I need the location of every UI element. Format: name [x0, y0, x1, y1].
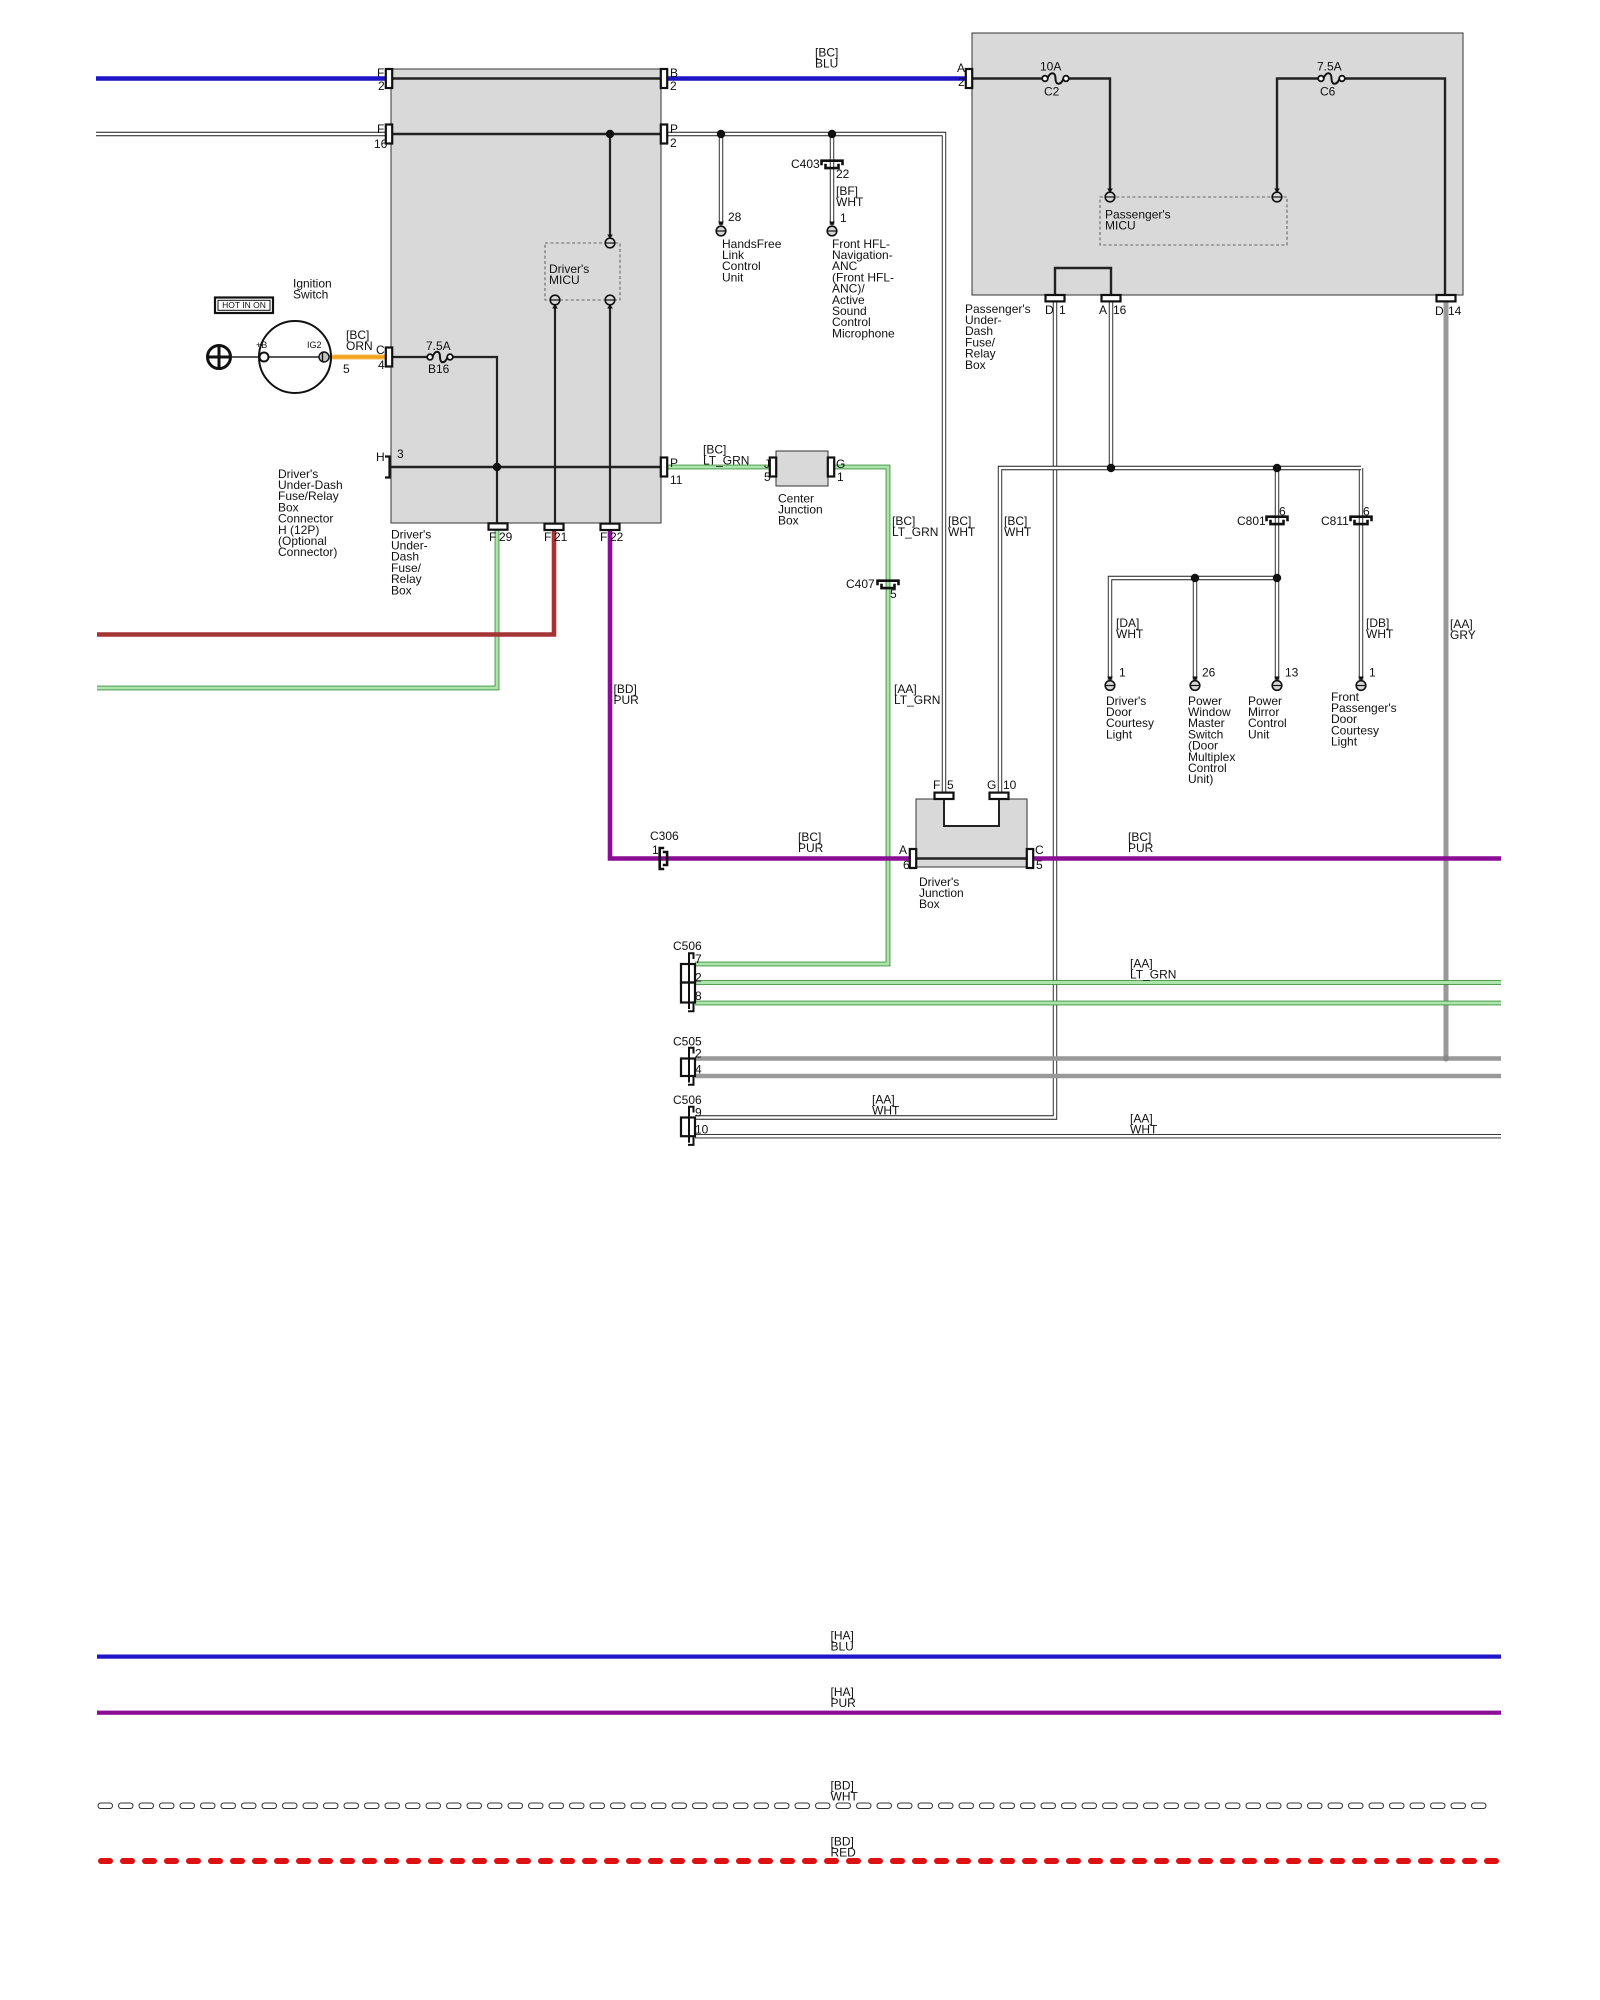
wire [HA] BLU bus	[97, 1655, 1501, 1659]
svg-text:7.5A: 7.5A	[1317, 59, 1342, 73]
terminal 28 HandsFree	[718, 222, 724, 227]
fuse C6 7.5A	[1318, 76, 1324, 82]
svg-text:Light: Light	[1331, 735, 1358, 749]
svg-text:WHT: WHT	[948, 525, 976, 539]
svg-text:WHT: WHT	[836, 195, 864, 209]
svg-text:D: D	[1045, 303, 1054, 317]
wire loop D1 to A16 inside passenger box	[1055, 268, 1111, 295]
svg-text:5: 5	[890, 587, 897, 601]
Driver's Junction Box (gray box with notch)	[916, 799, 1027, 867]
svg-text:LT_GRN: LT_GRN	[892, 525, 938, 539]
wire [BC] WHT A16 down to junction	[1109, 302, 1113, 468]
svg-text:26: 26	[1202, 665, 1216, 679]
svg-text:WHT: WHT	[1130, 1123, 1158, 1137]
wire dark red from F21 down and left	[97, 530, 554, 635]
svg-text:G: G	[987, 778, 996, 792]
wire F16 to P2 inside driver's box	[391, 133, 661, 135]
svg-text:C: C	[1035, 843, 1044, 857]
terminal Driver MICU top	[607, 235, 613, 240]
HOT IN ON box	[215, 298, 273, 314]
terminal Passenger MICU left	[1107, 189, 1113, 194]
connector C505 (pins 2,4)	[688, 1048, 694, 1054]
svg-text:8: 8	[695, 989, 702, 1003]
connector pin H3 (optional connector bracket)	[385, 457, 390, 478]
svg-text:5: 5	[764, 470, 771, 484]
connector pin D1	[1046, 295, 1065, 301]
svg-text:2: 2	[695, 970, 702, 984]
wire P2 junction down to Driver's MICU	[609, 134, 611, 243]
svg-text:B16: B16	[428, 362, 450, 376]
connector pin C4	[386, 348, 392, 367]
svg-text:28: 28	[728, 210, 742, 224]
svg-text:Microphone: Microphone	[832, 326, 895, 340]
svg-text:C801: C801	[1237, 514, 1266, 528]
connector pin A6	[910, 849, 916, 868]
svg-text:C407: C407	[846, 577, 875, 591]
wire fuse C6 to D14	[1342, 79, 1445, 296]
connector pin F21	[545, 524, 564, 530]
svg-text:29: 29	[499, 530, 513, 544]
wire F2 to B2 inside driver's box	[391, 77, 661, 79]
svg-text:H: H	[376, 450, 385, 464]
connector pin J5	[770, 458, 776, 477]
svg-text:5: 5	[947, 778, 954, 792]
svg-text:1: 1	[1119, 665, 1126, 679]
Driver's MICU (dashed box)	[545, 243, 620, 300]
svg-text:1: 1	[837, 470, 844, 484]
connector pin A16	[1102, 295, 1121, 301]
svg-text:13: 13	[1285, 665, 1299, 679]
svg-text:Box: Box	[778, 514, 799, 528]
wire fuse C2 to Passenger's MICU	[1066, 79, 1110, 193]
svg-text:2: 2	[958, 75, 965, 89]
connector pin P2	[661, 125, 667, 144]
Passenger's Under-Dash Fuse/Relay Box (gray box)	[972, 33, 1463, 295]
terminal 1 Front HFL-ANC	[829, 222, 835, 227]
svg-text:10: 10	[1003, 778, 1017, 792]
svg-text:16: 16	[374, 137, 388, 151]
svg-text:C306: C306	[650, 829, 679, 843]
terminal Driver MICU bottom-right	[607, 304, 613, 309]
wire [HA] PUR bus	[97, 1711, 1501, 1715]
svg-text:BLU: BLU	[815, 57, 838, 71]
svg-text:Light: Light	[1106, 727, 1133, 741]
svg-text:7: 7	[695, 952, 702, 966]
wire white left feed to F16	[96, 132, 391, 136]
svg-text:2: 2	[378, 79, 385, 93]
battery symbol	[208, 346, 231, 369]
svg-text:A: A	[957, 61, 965, 75]
svg-text:Box: Box	[919, 897, 940, 911]
wire white drop to Power Window Master Switch pin 26	[1193, 578, 1197, 680]
connector pin D14	[1437, 295, 1456, 301]
connector pin F2	[386, 69, 392, 88]
wire [AA] GRY C505 pin 4 row	[695, 1074, 1501, 1079]
svg-text:1: 1	[1059, 303, 1066, 317]
wire C4 to fuse B16	[392, 356, 429, 358]
svg-text:RED: RED	[831, 1846, 857, 1860]
wire [BC] ORN ignition switch to C4	[329, 354, 387, 359]
svg-text:C811: C811	[1321, 514, 1349, 528]
svg-text:Box: Box	[965, 358, 986, 372]
wire [BD] PUR from F22 down through C306 to A6	[610, 530, 916, 859]
wire Passenger's MICU to fuse C6	[1277, 79, 1321, 193]
wire green from F29 down and left	[97, 530, 497, 688]
svg-text:P: P	[670, 456, 678, 470]
svg-text:WHT: WHT	[1004, 525, 1032, 539]
svg-text:IG2: IG2	[307, 340, 322, 350]
wire [AA] LT_GRN C506 pin 8 row	[695, 1001, 1501, 1006]
fuse C2 10A	[1042, 76, 1048, 82]
svg-text:Unit: Unit	[1248, 727, 1270, 741]
ignition switch contact +B to IG2	[268, 356, 319, 358]
svg-text:F: F	[933, 778, 940, 792]
connector pin G1	[828, 458, 834, 477]
svg-text:Unit: Unit	[722, 270, 744, 284]
svg-text:6: 6	[903, 858, 910, 872]
svg-text:6: 6	[1363, 504, 1370, 518]
svg-text:21: 21	[554, 530, 568, 544]
wire [BC] WHT from P2 junction down to F5 of driver's junction box	[665, 134, 944, 792]
svg-text:LT_GRN: LT_GRN	[703, 454, 749, 468]
connector pin F22	[601, 524, 620, 530]
svg-text:HOT IN ON: HOT IN ON	[222, 300, 266, 310]
wire [DA] WHT lower distribution to Driver's Door Courtesy Light	[1110, 578, 1277, 680]
svg-text:11: 11	[670, 473, 683, 487]
svg-text:WHT: WHT	[831, 1790, 859, 1804]
connector C407	[878, 581, 899, 586]
svg-text:14: 14	[1448, 304, 1462, 318]
svg-text:10A: 10A	[1040, 59, 1061, 73]
connector C506 upper (pins 7,2,8)	[688, 953, 694, 959]
svg-text:Box: Box	[391, 583, 412, 597]
connector C801	[1267, 517, 1288, 522]
svg-text:5: 5	[1036, 858, 1043, 872]
wire [AA] WHT D1 down to C506 pin 9 row	[695, 302, 1055, 1118]
wire [BC] PUR from C5 to right edge	[1027, 856, 1501, 861]
svg-text:WHT: WHT	[872, 1104, 900, 1118]
connector pin B2	[661, 69, 667, 88]
svg-text:PUR: PUR	[1128, 841, 1154, 855]
svg-text:J: J	[764, 457, 770, 471]
wire [AA] LT_GRN C506 pin 2 row	[695, 980, 1501, 985]
wire [BC] WHT horizontal distribution with drops to G10 and C811	[1000, 468, 1361, 792]
wire Driver's MICU to F22	[609, 300, 611, 523]
svg-text:F: F	[377, 66, 384, 80]
Passenger's MICU (dashed box)	[1100, 197, 1287, 245]
svg-text:PUR: PUR	[614, 693, 640, 707]
connector C306	[660, 848, 665, 869]
svg-text:5: 5	[343, 362, 350, 376]
svg-text:F: F	[544, 530, 551, 544]
svg-text:G: G	[836, 457, 845, 471]
Driver's Under-Dash Fuse/Relay Box (gray box)	[391, 69, 661, 523]
wire [AA] GRY D14 down to C505 pin 2 row	[1444, 302, 1449, 1059]
svg-text:MICU: MICU	[549, 273, 580, 287]
wire [BC] LT_GRN P11 to J5	[666, 465, 772, 470]
ignition switch circle	[259, 321, 331, 393]
wire white vertical through C403 to Front HFL-ANC microphone pin 1	[830, 134, 834, 225]
terminal 1 Front Passenger's Door Courtesy Light	[1358, 677, 1364, 682]
connector pin A2 of passenger box	[966, 69, 972, 88]
svg-text:P: P	[670, 122, 678, 136]
svg-text:22: 22	[610, 530, 624, 544]
svg-text:+B: +B	[256, 340, 267, 350]
svg-text:F: F	[600, 530, 607, 544]
connector pin P11	[661, 458, 667, 477]
svg-text:Switch: Switch	[293, 288, 328, 302]
wire [BD] WHT dashed bus	[98, 1803, 113, 1809]
svg-text:A: A	[1099, 303, 1107, 317]
connector pin F29	[489, 523, 508, 529]
svg-text:GRY: GRY	[1450, 628, 1476, 642]
svg-text:C403: C403	[791, 157, 820, 171]
svg-text:3: 3	[397, 447, 404, 461]
svg-text:4: 4	[378, 358, 385, 372]
svg-text:B: B	[670, 66, 678, 80]
svg-text:F: F	[377, 122, 384, 136]
wire [BC]/[AA] LT_GRN from G1 down through C407 to C506 pin 7	[695, 467, 888, 964]
svg-text:10: 10	[695, 1123, 709, 1137]
svg-text:16: 16	[1113, 303, 1127, 317]
terminal IG2	[319, 352, 329, 362]
Center Junction Box (gray box)	[776, 451, 828, 486]
svg-text:9: 9	[695, 1105, 702, 1119]
svg-text:A: A	[899, 843, 907, 857]
svg-text:WHT: WHT	[1116, 627, 1144, 641]
svg-text:PUR: PUR	[798, 841, 824, 855]
wire fuse B16 to F29 branch	[451, 357, 497, 523]
connector pin F5	[935, 793, 954, 799]
wire [BC] BLU left feed	[96, 76, 391, 80]
wire [BC] BLU from B2 to A2	[665, 76, 972, 80]
terminal 13 Power Mirror Control Unit	[1274, 677, 1280, 682]
svg-text:2: 2	[695, 1046, 702, 1060]
wire [AA] WHT C506 pin 10 row	[695, 1134, 1501, 1138]
svg-text:2: 2	[670, 136, 677, 150]
svg-text:2: 2	[670, 79, 677, 93]
wire A6 to C5 inside driver's junction box	[916, 857, 1027, 860]
terminal Passenger MICU right	[1274, 189, 1280, 194]
svg-text:MICU: MICU	[1105, 219, 1136, 233]
svg-text:1: 1	[840, 211, 847, 225]
svg-text:6: 6	[1279, 504, 1286, 518]
svg-text:1: 1	[1369, 665, 1376, 679]
connector pin C5	[1027, 849, 1033, 868]
wire H3 to P11 inside driver's box	[391, 466, 661, 468]
svg-text:4: 4	[695, 1062, 702, 1076]
fuse B16 7.5A	[427, 354, 433, 360]
wire white vertical through C801 to Power Mirror Control Unit pin 13	[1275, 468, 1279, 680]
svg-text:Connector): Connector)	[278, 545, 337, 559]
terminal +B	[260, 353, 269, 362]
svg-text:C2: C2	[1044, 84, 1060, 98]
connector pin F16	[386, 125, 392, 144]
svg-text:C: C	[376, 343, 385, 357]
svg-text:LT_GRN: LT_GRN	[1130, 968, 1176, 982]
svg-text:1: 1	[652, 843, 659, 857]
connector C506 lower (pins 9,10)	[688, 1107, 694, 1113]
terminal Driver MICU bottom-left	[552, 304, 558, 309]
svg-text:C506: C506	[673, 939, 702, 953]
svg-text:Unit): Unit)	[1188, 772, 1213, 786]
junction dots	[606, 130, 614, 138]
wire A2 to fuse C2	[972, 77, 1045, 79]
connector C403	[822, 161, 843, 166]
svg-text:WHT: WHT	[1366, 627, 1394, 641]
svg-text:BLU: BLU	[831, 1640, 854, 1654]
svg-text:LT_GRN: LT_GRN	[894, 693, 940, 707]
svg-text:7.5A: 7.5A	[426, 339, 451, 353]
svg-text:F: F	[489, 530, 496, 544]
wire battery to ignition switch	[231, 356, 260, 358]
connector C811	[1351, 517, 1372, 522]
connector pin G10	[990, 793, 1009, 799]
wire [AA] GRY C505 pin 2 row	[695, 1056, 1501, 1061]
wire white vertical to HandsFree Link Control Unit pin 28	[719, 134, 723, 225]
svg-text:C6: C6	[1320, 84, 1336, 98]
svg-text:PUR: PUR	[831, 1696, 857, 1710]
terminal 26 Power Window Master Switch	[1192, 677, 1198, 682]
svg-text:ORN: ORN	[346, 339, 373, 353]
wire white vertical through C811 to Front Passenger's Door Courtesy Light pin 1	[1359, 468, 1363, 680]
svg-text:22: 22	[836, 167, 850, 181]
wire MICU to F21	[554, 300, 556, 523]
wire [BD] RED dashed bus	[98, 1858, 113, 1864]
svg-text:D: D	[1435, 304, 1444, 318]
terminal 1 Driver's Door Courtesy Light	[1107, 677, 1113, 682]
